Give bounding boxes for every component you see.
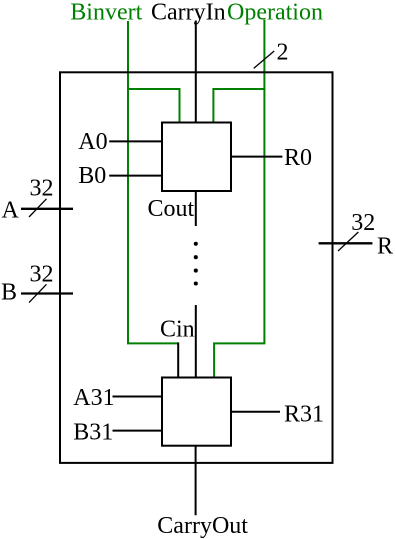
bus R wire [319,242,373,244]
svg-text:32: 32 [30,261,54,287]
svg-text:CarryIn: CarryIn [151,0,226,26]
svg-text:A31: A31 [73,385,114,411]
ellipsis dot 2 [194,255,198,259]
svg-text:B0: B0 [78,163,106,189]
wire CarryIn vertical [195,21,197,123]
svg-text:CarryOut: CarryOut [157,513,248,539]
svg-text:32: 32 [351,210,375,236]
svg-text:A0: A0 [78,129,107,155]
wire Operation branch to ALU0 [213,89,265,123]
svg-text:2: 2 [277,40,289,66]
svg-text:Cout: Cout [148,196,195,222]
bus A slash [29,199,47,217]
svg-text:32: 32 [30,175,54,201]
svg-text:Cin: Cin [160,317,195,343]
svg-text:Binvert: Binvert [70,0,142,26]
ellipsis dot 3 [194,269,198,273]
wire Binvert branch to ALU0 [127,89,180,123]
bus-width slash 2 on Operation [254,51,275,68]
outer box 32-bit ALU [60,72,333,463]
wire carry chain from U0 Cout [195,191,197,226]
wire B0 [109,175,162,177]
wire A31 [113,396,163,398]
wire B31 [113,430,163,432]
svg-text:B31: B31 [73,420,113,446]
bus R slash [338,232,358,251]
alu U0 box (1-bit ALU, bit 0) [162,123,231,192]
ellipsis dot 1 [194,242,198,246]
svg-text:A: A [2,198,20,224]
wire CarryOut [195,446,197,516]
svg-text:R31: R31 [284,402,324,428]
wire black drop into ALU31 (Binvert) [177,342,179,377]
svg-text:R0: R0 [284,145,312,171]
svg-text:R: R [377,233,393,259]
wire R31 [231,411,280,413]
wire Operation main vertical [263,20,265,344]
wire Operation branch to ALU31 [214,343,265,377]
svg-text:B: B [1,280,17,306]
svg-text:Operation: Operation [227,0,323,26]
wire R0 [231,156,282,158]
wire A0 [109,140,162,142]
wire Binvert main vertical [127,21,129,343]
wire carry chain into U31 Cin [195,305,197,378]
bus B wire [21,292,73,294]
bus A wire [21,208,73,210]
wire Binvert branch horizontal to ALU31 [127,342,178,344]
alu U31 box (1-bit ALU, bit 31) [162,378,231,446]
bus B slash [29,284,47,302]
ellipsis dot 4 [194,281,198,285]
